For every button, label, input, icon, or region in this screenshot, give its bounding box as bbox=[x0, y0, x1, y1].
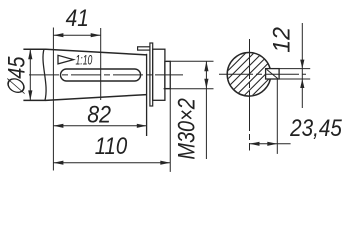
shaft axis (dash-dot) bbox=[29, 74, 183, 76]
svg-text:41: 41 bbox=[66, 3, 89, 31]
phi45 dimension bbox=[29, 49, 31, 100]
thread stub bbox=[165, 61, 170, 88]
svg-text:12: 12 bbox=[269, 27, 296, 53]
break line (wavy) bbox=[43, 49, 46, 101]
key cross-section bbox=[266, 69, 280, 79]
svg-text:82: 82 bbox=[87, 100, 111, 128]
keyway slot bbox=[61, 69, 141, 81]
circle outline bbox=[227, 53, 271, 97]
hatched circle bbox=[228, 53, 270, 95]
110 right extension (thread end face down) bbox=[169, 89, 171, 172]
svg-text:1:10: 1:10 bbox=[75, 53, 92, 69]
dim 23,45 bbox=[276, 80, 278, 154]
shaft outline top edge with phi45 extension bbox=[23, 49, 146, 55]
dim line 41 bbox=[53, 34, 100, 36]
taper symbol triangle bbox=[58, 55, 74, 64]
horizontal centerline bbox=[219, 73, 306, 75]
M30x2 dimension bbox=[166, 60, 214, 62]
dim line 82 bbox=[53, 125, 146, 127]
lock washer tab bbox=[138, 47, 151, 50]
svg-text:M30×2: M30×2 bbox=[173, 98, 200, 160]
dim 12 bbox=[279, 68, 310, 70]
nut bbox=[153, 49, 165, 100]
main left extension line bbox=[52, 28, 54, 171]
dim line 110 bbox=[53, 162, 170, 164]
taper end edge + 82 extension line bbox=[146, 54, 148, 136]
svg-text:23,45: 23,45 bbox=[289, 115, 342, 142]
dimension 41 extension right (crosses shaft) bbox=[100, 28, 102, 100]
washer bbox=[150, 43, 153, 106]
vertical centerline bbox=[249, 39, 251, 151]
shaft outline bottom edge with phi45 extension bbox=[23, 95, 146, 101]
svg-text:110: 110 bbox=[95, 132, 128, 159]
svg-text:∅45: ∅45 bbox=[3, 56, 30, 96]
